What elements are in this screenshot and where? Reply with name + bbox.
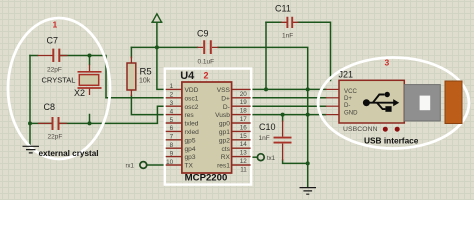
USB metal shield: [404, 85, 440, 121]
svg-text:6: 6: [170, 125, 174, 132]
wire rx1 to pin10: [147, 164, 165, 166]
junction C10 top: [281, 113, 285, 117]
capacitor C10: [259, 121, 292, 161]
svg-text:14: 14: [240, 141, 248, 148]
svg-text:R5: R5: [140, 66, 152, 77]
resistor R5: [127, 57, 152, 97]
capacitor C11: [275, 4, 299, 40]
svg-text:Vusb: Vusb: [215, 112, 230, 119]
svg-text:12: 12: [240, 158, 248, 165]
svg-text:20: 20: [240, 91, 248, 98]
svg-text:gp4: gp4: [185, 146, 196, 153]
svg-text:17: 17: [240, 116, 248, 123]
capacitor C9: [197, 29, 219, 66]
pin 14 stub (gp2): [232, 139, 251, 141]
svg-text:22pF: 22pF: [48, 134, 63, 141]
svg-text:J21: J21: [339, 70, 354, 80]
svg-text:19: 19: [240, 99, 248, 106]
USB orange plug end: [445, 81, 462, 124]
svg-text:1: 1: [53, 20, 58, 30]
wire rail C9 right to down vertical: [218, 47, 308, 186]
svg-text:3: 3: [385, 58, 390, 68]
wire osc2 jog to pin3: [90, 106, 165, 123]
svg-text:D+: D+: [344, 95, 352, 102]
wire RX pin to tx1: [251, 156, 257, 158]
annotation ellipse 1 (external crystal): [8, 18, 110, 159]
wire Vusb row to USB GND: [251, 114, 326, 116]
svg-text:D-: D-: [344, 102, 350, 109]
USB pin stub VCC: [326, 88, 339, 90]
svg-text:MCP2200: MCP2200: [185, 173, 228, 184]
wire crystal top stub: [89, 56, 91, 65]
svg-text:C11: C11: [275, 4, 291, 14]
svg-text:USB interface: USB interface: [364, 136, 419, 146]
junction VDD rail: [155, 45, 159, 49]
svg-text:gp0: gp0: [219, 121, 230, 128]
svg-text:D+: D+: [221, 95, 230, 102]
wire C8 left: [30, 122, 52, 124]
ground (external crystal): [23, 146, 40, 153]
pin 1 stub (VDD): [166, 88, 182, 90]
wire D+ row: [251, 97, 326, 99]
svg-text:2: 2: [170, 92, 174, 99]
svg-text:gp3: gp3: [185, 154, 196, 161]
svg-text:1: 1: [170, 83, 174, 90]
svg-text:txled: txled: [185, 121, 199, 128]
svg-text:2: 2: [204, 70, 209, 80]
svg-text:D-: D-: [223, 104, 230, 111]
svg-text:res1: res1: [217, 163, 230, 170]
svg-text:13: 13: [240, 150, 248, 157]
red dot 1: [383, 127, 388, 132]
pin 16 stub (gp0): [232, 122, 251, 124]
pin 4 stub (res): [166, 114, 182, 116]
junction rail on VSS row: [306, 87, 310, 91]
junction C11 left on VSS row: [264, 87, 268, 91]
svg-text:1nF: 1nF: [259, 135, 270, 142]
svg-text:8: 8: [170, 142, 174, 149]
wire C10 bottom to ground rail: [283, 160, 308, 163]
capacitor C7: [38, 36, 68, 74]
wire C7 left to rail: [30, 55, 38, 57]
junction C8/crystal bottom: [88, 121, 92, 125]
pin 18 stub (D-): [232, 105, 251, 107]
wire top rail left: [131, 46, 157, 48]
red dot 2: [395, 127, 400, 132]
pin 17 stub (Vusb): [232, 114, 251, 116]
svg-text:external crystal: external crystal: [39, 149, 99, 158]
svg-text:CRYSTAL: CRYSTAL: [42, 76, 76, 85]
wire VSS row to USB VCC: [251, 88, 326, 90]
svg-text:gp5: gp5: [185, 137, 196, 144]
terminal rx1: [140, 162, 147, 169]
crystal X2: [42, 65, 102, 99]
svg-text:10: 10: [166, 159, 174, 166]
USB shield hole: [420, 96, 431, 111]
svg-text:10k: 10k: [139, 78, 151, 85]
svg-text:cts: cts: [221, 146, 230, 153]
wire C11 left: [266, 21, 281, 23]
wire R5 bottom to pin4 res: [131, 96, 164, 115]
pin 11 stub (res1): [232, 164, 251, 166]
USB pin stub D-: [326, 105, 339, 107]
svg-text:18: 18: [240, 108, 248, 115]
pin 15 stub (gp1): [232, 130, 251, 132]
svg-text:gp1: gp1: [219, 129, 230, 136]
wire C11 right vertical: [298, 22, 331, 80]
svg-text:VCC: VCC: [344, 88, 357, 95]
wire C10 top stub: [282, 115, 284, 121]
svg-text:TX: TX: [185, 163, 194, 170]
pin 5 stub (txled): [166, 122, 182, 124]
svg-text:7: 7: [170, 134, 174, 141]
junction C7/crystal top: [88, 54, 92, 58]
svg-text:0.1uF: 0.1uF: [198, 59, 215, 66]
annotation ellipse 3 (USB interface): [318, 58, 469, 149]
wire VDD vertical to pin1: [157, 22, 165, 89]
wire C8 right: [60, 122, 90, 124]
svg-text:U4: U4: [180, 70, 195, 82]
svg-text:GND: GND: [344, 109, 358, 116]
ground (USB/C10): [300, 188, 317, 195]
wire D- row: [251, 105, 326, 107]
pin 9 stub (gp3): [166, 156, 182, 158]
svg-text:5: 5: [170, 117, 174, 124]
pin 13 stub (cts): [232, 147, 251, 149]
pin 3 stub (osc2): [166, 105, 182, 107]
power symbol VDD arrow: [152, 14, 161, 22]
svg-text:3: 3: [170, 100, 174, 107]
svg-text:C8: C8: [44, 102, 56, 112]
svg-text:tx1: tx1: [267, 156, 276, 162]
svg-text:VSS: VSS: [217, 87, 231, 94]
svg-text:USBCONN: USBCONN: [343, 126, 378, 133]
capacitor C8: [38, 102, 67, 141]
svg-text:C7: C7: [47, 36, 59, 46]
junction ground vertical on Vusb row: [306, 113, 310, 117]
svg-text:osc2: osc2: [185, 104, 199, 111]
svg-text:rx1: rx1: [126, 164, 135, 170]
IC U4 MCP2200 body: [182, 82, 232, 173]
svg-text:9: 9: [170, 150, 174, 157]
terminal tx1: [257, 154, 264, 161]
wire C7 right to corner down: [60, 56, 106, 98]
svg-text:osc1: osc1: [185, 95, 199, 102]
wire rail to C9 left: [157, 46, 198, 48]
pin 12 stub (RX): [232, 156, 251, 158]
USB trident logo: [366, 95, 394, 110]
wire left vertical x=30: [29, 56, 31, 146]
pin 6 stub (rxled): [166, 130, 182, 132]
svg-text:15: 15: [240, 133, 248, 140]
pin 20 stub (VSS): [232, 88, 251, 90]
pin 2 stub (osc1): [166, 97, 182, 99]
wire C11 left vertical: [265, 22, 267, 89]
svg-text:11: 11: [240, 166, 247, 173]
USB pin stub GND: [326, 114, 339, 116]
svg-text:16: 16: [240, 124, 248, 131]
annotation box 2 (around U4): [165, 69, 251, 185]
wire crystal bottom stub: [89, 115, 91, 124]
svg-text:rxled: rxled: [185, 129, 200, 136]
svg-text:RX: RX: [221, 154, 231, 161]
pin 7 stub (gp5): [166, 139, 182, 141]
connector J21 body: [339, 80, 404, 123]
svg-text:4: 4: [170, 108, 174, 115]
svg-text:22pF: 22pF: [47, 67, 62, 74]
svg-text:1nF: 1nF: [282, 33, 293, 40]
pin 19 stub (D+): [232, 97, 251, 99]
svg-text:X2: X2: [74, 88, 85, 98]
pin 10 stub (TX): [166, 164, 182, 166]
svg-text:C10: C10: [259, 122, 276, 132]
svg-text:C9: C9: [197, 29, 209, 39]
USB pin stub D+: [326, 97, 339, 99]
junction ground rail: [306, 161, 310, 165]
wire R5 top lead: [130, 47, 132, 57]
pin 8 stub (gp4): [166, 147, 182, 149]
svg-text:res: res: [185, 112, 195, 119]
svg-text:VDD: VDD: [185, 87, 199, 94]
wire osc1 row: [106, 97, 165, 99]
svg-text:gp2: gp2: [219, 137, 230, 144]
junction C8 left: [28, 121, 32, 125]
